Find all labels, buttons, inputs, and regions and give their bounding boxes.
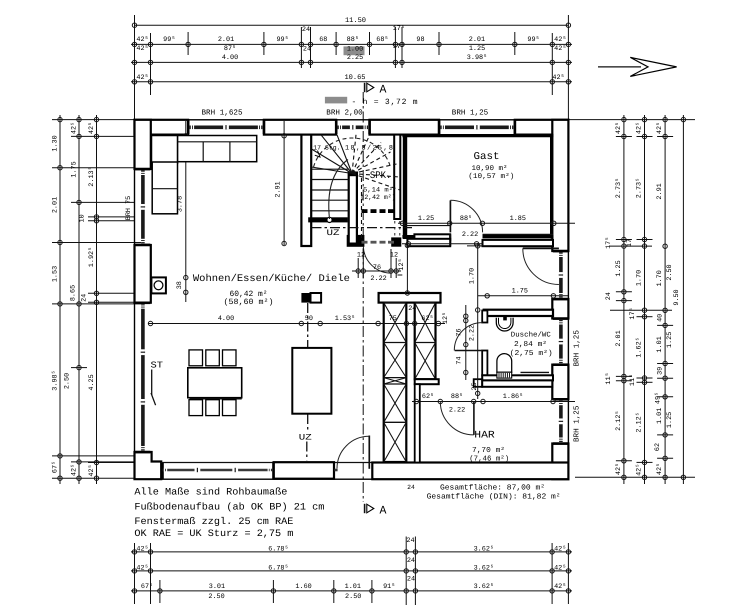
svg-text:2.73⁵: 2.73⁵ [615, 178, 623, 198]
svg-text:HAR: HAR [474, 431, 495, 442]
svg-text:2.50: 2.50 [64, 373, 72, 389]
svg-text:6.78⁵: 6.78⁵ [268, 546, 288, 554]
section marker A top [364, 83, 366, 92]
top wall pier mid [264, 120, 336, 135]
svg-text:2.50: 2.50 [345, 593, 361, 601]
svg-text:88⁵: 88⁵ [460, 215, 472, 223]
svg-text:88⁵: 88⁵ [451, 393, 463, 401]
Dusche door leaf [455, 350, 483, 352]
svg-text:76: 76 [455, 328, 463, 336]
svg-text:24: 24 [407, 576, 415, 584]
svg-text:1.85: 1.85 [510, 215, 526, 223]
svg-text:2.13⁵: 2.13⁵ [88, 166, 96, 186]
svg-text:40: 40 [657, 314, 665, 322]
svg-text:74: 74 [455, 356, 463, 364]
bottom wall right segment [372, 463, 568, 480]
svg-text:24: 24 [303, 46, 311, 54]
Dusche west wall lower [482, 351, 487, 376]
window BRH 1,625 top wall [187, 120, 190, 134]
svg-text:8.65: 8.65 [70, 285, 78, 301]
svg-text:24: 24 [302, 26, 310, 34]
svg-text:2.01: 2.01 [615, 330, 623, 346]
bottom dimension row B line [131, 557, 572, 573]
window BRH 1,25 top wall (Gast) [438, 120, 441, 134]
right dim line 3 [663, 115, 667, 484]
svg-text:12⁵: 12⁵ [442, 312, 450, 324]
svg-text:(10,57 m²): (10,57 m²) [468, 172, 514, 181]
stair winder treads solid [312, 167, 353, 174]
right extension lines [568, 119, 695, 121]
svg-text:2.01: 2.01 [52, 197, 60, 213]
corridor dim line 76/74 [455, 305, 468, 380]
window right wall (HAR) [553, 398, 568, 401]
hall width dim (1.10/40) [406, 245, 408, 293]
bottom dimension row A line [131, 537, 572, 554]
svg-text:11⁵: 11⁵ [605, 372, 613, 384]
svg-text:Gast: Gast [474, 151, 500, 163]
svg-text:4.00: 4.00 [222, 54, 238, 62]
kitchen island [292, 348, 331, 414]
svg-text:UZ: UZ [327, 228, 340, 238]
left dim line 2 [77, 115, 81, 484]
svg-text:7,70 m²: 7,70 m² [472, 446, 505, 455]
right dim line 2 [642, 115, 646, 484]
svg-text:75: 75 [389, 315, 397, 323]
svg-text:98: 98 [416, 36, 424, 44]
svg-text:24: 24 [408, 305, 416, 313]
window right wall (Dusche) [553, 317, 568, 320]
top dimension row 2 line [131, 42, 572, 46]
svg-text:12: 12 [357, 251, 365, 259]
svg-text:1.70: 1.70 [636, 270, 644, 286]
svg-text:17 Stg.: 17 Stg. [313, 144, 340, 151]
svg-text:BRH 1,625: BRH 1,625 [201, 109, 242, 118]
svg-text:24: 24 [407, 484, 415, 491]
Dusche door arc [454, 323, 482, 351]
stair east wall (17.5) [394, 135, 400, 219]
svg-text:17⁵: 17⁵ [629, 307, 637, 319]
sofa corner group [152, 136, 178, 164]
svg-text:A: A [380, 84, 387, 97]
svg-text:BRH 1,25: BRH 1,25 [573, 405, 582, 442]
svg-text:17⁵: 17⁵ [605, 237, 613, 249]
svg-text:1.00: 1.00 [347, 46, 363, 54]
svg-text:2.22: 2.22 [449, 407, 465, 415]
svg-text:42⁵: 42⁵ [88, 122, 96, 134]
HAR door arc [440, 402, 473, 435]
svg-text:42⁵: 42⁵ [554, 45, 566, 53]
svg-text:88⁵: 88⁵ [347, 36, 359, 44]
svg-text:SPK.: SPK. [370, 171, 392, 182]
door/window right wall (hall entrance) [553, 250, 568, 253]
svg-text:62⁵: 62⁵ [421, 315, 433, 323]
svg-text:17⁵: 17⁵ [393, 25, 405, 33]
legend grey box [325, 97, 347, 104]
svg-text:17⁵: 17⁵ [393, 43, 405, 51]
svg-text:42⁵: 42⁵ [136, 565, 148, 573]
svg-text:87⁵: 87⁵ [224, 45, 236, 53]
svg-text:42⁵: 42⁵ [554, 546, 566, 554]
svg-text:2.73⁵: 2.73⁵ [636, 178, 644, 198]
Gast dim line [398, 215, 575, 239]
right wall pier top (Gast) [552, 120, 568, 251]
window left wall upper (BRH 75) [135, 168, 150, 171]
svg-text:42⁵: 42⁵ [554, 36, 566, 44]
shaft left column (hatched) [384, 303, 407, 462]
bottom extension lines [134, 543, 136, 604]
svg-text:Alle Maße sind Rohbaumaße: Alle Maße sind Rohbaumaße [134, 487, 287, 498]
svg-text:1.30: 1.30 [52, 135, 60, 151]
svg-text:11⁵: 11⁵ [629, 374, 637, 386]
dining chairs top [189, 350, 203, 366]
entrance door arc [337, 436, 369, 468]
svg-text:12⁵: 12⁵ [398, 258, 406, 270]
right wall pier mid1 [552, 299, 568, 319]
top extension lines [134, 15, 136, 120]
svg-text:1.25: 1.25 [666, 412, 674, 428]
svg-text:2.50: 2.50 [208, 593, 224, 601]
svg-text:24: 24 [406, 537, 414, 545]
right dim line 1 [622, 115, 626, 484]
SPK thick dashes [362, 209, 368, 213]
svg-text:68⁵: 68⁵ [376, 36, 388, 44]
svg-text:3.98⁵: 3.98⁵ [467, 54, 487, 62]
svg-text:1.01: 1.01 [656, 336, 664, 352]
left dim line 3 [94, 115, 98, 484]
left wall pier mid [135, 245, 151, 303]
svg-text:Wohnen/Essen/Küche/ Diele: Wohnen/Essen/Küche/ Diele [193, 273, 350, 285]
svg-text:67⁵: 67⁵ [52, 461, 60, 473]
Dusche north wall [484, 310, 553, 316]
svg-text:42⁵: 42⁵ [656, 122, 664, 134]
washbasin [496, 318, 513, 331]
top wall pier right corner [515, 120, 569, 135]
stair core (spindle) [349, 173, 357, 244]
Gast south wall east part [483, 233, 554, 235]
svg-text:1.75: 1.75 [512, 288, 528, 296]
sofa wall dim 3.78/38 [176, 121, 188, 302]
svg-text:91⁵: 91⁵ [383, 583, 395, 591]
svg-text:62: 62 [654, 443, 662, 451]
Gast door arc [450, 200, 482, 232]
svg-text:3.62⁵: 3.62⁵ [474, 583, 494, 591]
svg-text:OK RAE = UK Sturz = 2,75 m: OK RAE = UK Sturz = 2,75 m [134, 528, 293, 539]
living dim 2.91 [274, 121, 286, 246]
svg-text:(7,46 m²): (7,46 m²) [469, 454, 509, 463]
svg-text:42⁵: 42⁵ [136, 74, 148, 82]
svg-text:4.25: 4.25 [88, 374, 96, 390]
svg-text:BRH 1,25: BRH 1,25 [452, 109, 489, 118]
svg-text:68: 68 [319, 36, 327, 44]
svg-text:10: 10 [79, 214, 87, 222]
window left wall lower [135, 302, 150, 305]
svg-text:42⁵: 42⁵ [615, 463, 623, 475]
HAR north wall west piece [474, 379, 483, 387]
left wall corner pier top [135, 120, 151, 169]
svg-text:3.62⁵: 3.62⁵ [474, 546, 494, 554]
stair dashed arc (upper flight) [314, 138, 391, 167]
UZ beam vertical (dash-dot) [307, 303, 309, 431]
top dimension row 3 line [131, 60, 572, 64]
svg-text:- h = 3,72 m: - h = 3,72 m [352, 98, 418, 107]
svg-text:1.75: 1.75 [71, 161, 79, 177]
entrance door leaf [368, 436, 370, 469]
svg-text:62⁵: 62⁵ [422, 393, 434, 401]
svg-text:3.01: 3.01 [209, 583, 225, 591]
svg-text:38: 38 [176, 281, 184, 289]
svg-text:11.50: 11.50 [345, 17, 366, 25]
svg-text:39: 39 [657, 367, 665, 375]
bottom wall inner face line [161, 462, 568, 464]
svg-text:2.01: 2.01 [469, 36, 485, 44]
HAR west wall [415, 384, 420, 462]
svg-text:1.25: 1.25 [666, 332, 674, 348]
stair winder treads dashed (upper flight) [352, 135, 356, 174]
svg-text:2.12⁵: 2.12⁵ [615, 410, 623, 430]
svg-text:A: A [380, 505, 387, 518]
svg-text:24: 24 [605, 292, 613, 300]
pillar at beam crossing [301, 293, 310, 303]
svg-text:42⁵: 42⁵ [636, 122, 644, 134]
svg-text:42⁵: 42⁵ [136, 546, 148, 554]
outer wall face [135, 120, 569, 479]
svg-text:12: 12 [390, 252, 398, 260]
left wall corner pier bottom [135, 452, 162, 479]
svg-text:2.91: 2.91 [656, 183, 664, 199]
hall dim line 1.75 [478, 288, 568, 298]
svg-text:4.00: 4.00 [218, 315, 234, 323]
svg-text:(2,75 m²): (2,75 m²) [510, 349, 553, 358]
svg-text:2.22: 2.22 [468, 325, 476, 341]
svg-text:2,84 m²: 2,84 m² [514, 340, 547, 349]
svg-text:42⁵: 42⁵ [552, 74, 564, 82]
dining table [188, 368, 242, 398]
shower partition line [521, 371, 550, 373]
svg-text:42⁵: 42⁵ [88, 464, 96, 476]
svg-text:67⁵: 67⁵ [141, 583, 153, 591]
WC toilet [497, 354, 512, 373]
svg-text:99⁵: 99⁵ [276, 36, 288, 44]
svg-text:1.25: 1.25 [469, 45, 485, 53]
HAR door dim line [412, 382, 575, 414]
hall south-west wall piece [407, 239, 450, 246]
svg-text:2.50: 2.50 [666, 264, 674, 280]
svg-text:18,8/25,8: 18,8/25,8 [345, 144, 393, 152]
top dimension row 4 line (10.65) [131, 74, 572, 84]
svg-text:1.92⁵: 1.92⁵ [88, 247, 96, 267]
svg-text:1.70: 1.70 [656, 270, 664, 286]
top wall pier left corner [135, 120, 189, 135]
svg-text:42⁵: 42⁵ [554, 565, 566, 573]
right wall pier bottom [552, 444, 568, 480]
Gast wall extension ticks [402, 243, 483, 245]
corridor dim line 1.70/2.22 [467, 243, 492, 399]
svg-text:UZ: UZ [299, 433, 312, 443]
svg-text:50: 50 [305, 315, 313, 323]
Dusche south wall [482, 375, 553, 380]
window bottom wall [161, 463, 164, 479]
svg-text:(2,42 m²): (2,42 m²) [361, 194, 396, 201]
svg-text:Fenstermaß zzgl. 25 cm RAE: Fenstermaß zzgl. 25 cm RAE [134, 516, 293, 527]
svg-text:1.01: 1.01 [345, 583, 361, 591]
svg-text:1.70: 1.70 [468, 268, 476, 284]
svg-text:42⁵: 42⁵ [554, 583, 566, 591]
Dusche west wall upper [482, 311, 487, 323]
svg-text:1.25: 1.25 [615, 260, 623, 276]
stair east wall stub [392, 238, 400, 245]
Gast west boundary thick line [403, 135, 407, 239]
bottom wall block [274, 462, 334, 479]
SPK dashed boundary [361, 178, 363, 240]
svg-text:1.62⁵: 1.62⁵ [636, 337, 644, 357]
svg-text:2.01: 2.01 [218, 36, 234, 44]
stove [151, 277, 166, 293]
stair landing wall piece [348, 236, 364, 246]
right wall pier mid2 [552, 365, 568, 400]
svg-text:42⁵: 42⁵ [656, 463, 664, 475]
svg-text:1.01: 1.01 [656, 408, 664, 424]
svg-text:BRH 1,25: BRH 1,25 [573, 330, 582, 367]
grey highlight box for 1.00 [344, 46, 365, 55]
svg-text:2.12⁵: 2.12⁵ [636, 412, 644, 432]
svg-text:42⁵: 42⁵ [136, 36, 148, 44]
svg-text:3.98⁵: 3.98⁵ [52, 370, 60, 390]
section line A-A [362, 92, 364, 502]
svg-text:49⁵: 49⁵ [655, 392, 663, 404]
left extension lines [52, 119, 135, 121]
svg-text:2.22: 2.22 [370, 275, 386, 283]
hall exterior door arc [523, 248, 559, 284]
svg-text:Fußbodenaufbau (ab OK BP) 21 c: Fußbodenaufbau (ab OK BP) 21 cm [134, 502, 324, 513]
top dimension row 1 line (11.50) [132, 17, 570, 27]
svg-text:42⁵: 42⁵ [71, 464, 79, 476]
section marker A bottom [364, 504, 366, 513]
svg-text:1.53⁵: 1.53⁵ [335, 315, 355, 323]
svg-text:24: 24 [407, 557, 415, 565]
svg-text:Dusche/WC: Dusche/WC [511, 331, 552, 340]
stair treads [312, 168, 348, 170]
svg-text:10,90 m²: 10,90 m² [472, 165, 508, 173]
svg-text:9.50: 9.50 [673, 289, 681, 305]
shaft cap beam [379, 293, 441, 303]
svg-text:Gesamtfläche: 87,00 m²: Gesamtfläche: 87,00 m² [440, 484, 545, 493]
svg-text:(58,60 m²): (58,60 m²) [224, 298, 274, 307]
shaft right column (hatched) [415, 303, 436, 380]
svg-text:42⁵: 42⁵ [636, 464, 644, 476]
HAR north wall [482, 380, 552, 386]
dining chairs bottom [189, 400, 203, 416]
svg-text:3.62⁵: 3.62⁵ [474, 565, 494, 573]
Gast south wall west part [414, 234, 450, 240]
right dim line 4 [681, 115, 685, 484]
svg-text:10.65: 10.65 [344, 74, 365, 82]
svg-text:BRH 75: BRH 75 [125, 196, 133, 220]
hall door dim line (12/76/12) [352, 249, 401, 283]
svg-text:42⁵: 42⁵ [615, 122, 623, 134]
window BRH 2,00 top wall [335, 120, 338, 134]
svg-text:99⁵: 99⁵ [527, 36, 539, 44]
svg-text:1.60: 1.60 [295, 583, 311, 591]
svg-text:5,14 m²: 5,14 m² [363, 187, 393, 194]
svg-text:6.78⁵: 6.78⁵ [268, 565, 288, 573]
wall stub below shaft right column [415, 379, 439, 384]
bottom dimension row C line [131, 576, 572, 602]
stair direction arrowhead [315, 151, 320, 158]
top wall pier right of stairs [370, 120, 440, 135]
left dim line 1 [58, 115, 62, 484]
door Diele-hall arc [363, 246, 391, 273]
svg-text:2.22: 2.22 [462, 231, 478, 239]
svg-text:42⁵: 42⁵ [71, 122, 79, 134]
svg-text:BRH 2,00: BRH 2,00 [326, 109, 363, 118]
svg-text:2.91: 2.91 [274, 181, 282, 197]
hall exterior door leaf [523, 247, 559, 249]
north arrow [598, 66, 641, 68]
svg-text:1.86⁵: 1.86⁵ [503, 393, 523, 401]
Gast door leaf [449, 200, 451, 232]
stair west wall (24) [301, 135, 311, 246]
svg-text:ST: ST [151, 360, 164, 370]
svg-text:76: 76 [373, 264, 381, 272]
svg-text:24: 24 [81, 294, 89, 302]
svg-text:2.25: 2.25 [347, 54, 363, 62]
UZ beam horizontal (dash-dot) [312, 227, 413, 229]
svg-text:99⁵: 99⁵ [163, 36, 175, 44]
svg-text:Gesamtfläche (DIN): 81,82 m²: Gesamtfläche (DIN): 81,82 m² [427, 493, 561, 502]
living room dim line 4.00/50/1.53 [148, 305, 450, 325]
svg-text:42⁵: 42⁵ [136, 45, 148, 53]
svg-text:1.53: 1.53 [52, 266, 60, 282]
stair walking line [329, 160, 348, 220]
svg-text:1.25: 1.25 [418, 215, 434, 223]
